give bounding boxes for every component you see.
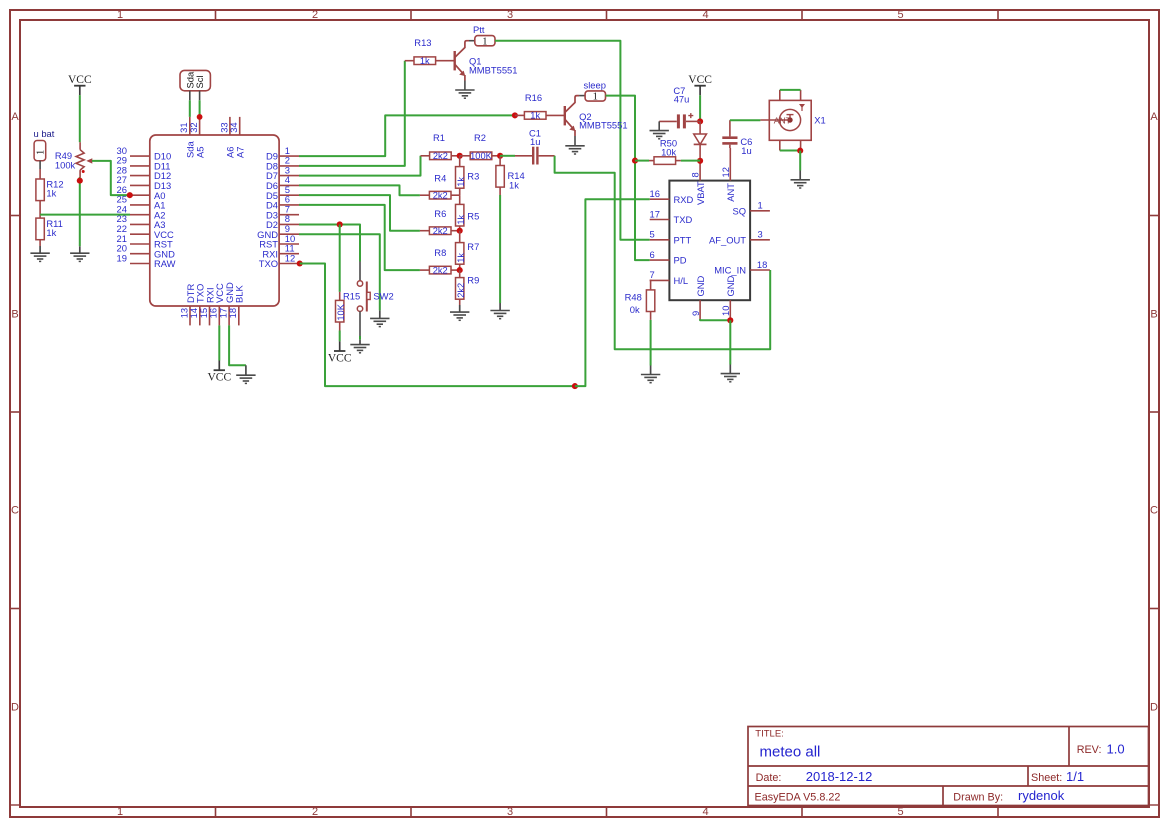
ground under R48 <box>641 366 660 383</box>
junction at R16 input <box>512 112 518 118</box>
ground under RF GND pins <box>721 365 740 382</box>
wire R2 to C1 <box>500 155 515 157</box>
resistor R8 <box>420 269 429 271</box>
RF module top pin numbers <box>690 167 731 177</box>
svg-text:EasyEDA V5.8.22: EasyEDA V5.8.22 <box>755 791 841 803</box>
svg-text:MMBT5551: MMBT5551 <box>469 64 517 75</box>
wire sleep to PD <box>606 96 650 261</box>
svg-text:R1: R1 <box>433 132 445 143</box>
ground under pin17 <box>236 365 255 383</box>
wire VCC to R49 <box>79 95 81 142</box>
wire GND10 down <box>729 320 731 364</box>
RF module right pin numbers <box>757 200 767 270</box>
svg-text:17: 17 <box>650 208 660 219</box>
svg-text:2: 2 <box>312 806 318 818</box>
svg-text:R15: R15 <box>343 290 360 301</box>
wire D9 to R16 net <box>299 115 515 156</box>
switch SW2 <box>357 262 370 337</box>
svg-text:5: 5 <box>897 9 903 21</box>
connector u bat <box>34 141 47 170</box>
svg-text:R3: R3 <box>467 171 479 182</box>
RF module left pins <box>650 199 670 280</box>
wire D6 to R4 <box>299 185 420 195</box>
wire SW2 to ground <box>359 336 361 340</box>
svg-text:1k: 1k <box>456 177 466 187</box>
svg-text:1: 1 <box>593 92 598 103</box>
ground at C7 <box>658 121 660 130</box>
svg-text:R7: R7 <box>467 241 479 252</box>
ground under R14 <box>490 303 509 319</box>
RF module bottom pin names <box>695 275 736 296</box>
resistor R6 <box>420 230 429 232</box>
svg-text:ANT: ANT <box>774 115 791 125</box>
MCU bottom pins <box>190 306 239 325</box>
svg-text:7: 7 <box>650 269 655 280</box>
resistor R48 <box>649 280 652 290</box>
svg-text:8: 8 <box>690 172 701 177</box>
svg-text:R9: R9 <box>467 275 479 286</box>
RF module bottom pin numbers <box>690 306 731 316</box>
ground under Q2 emitter <box>574 136 576 146</box>
ground under antenna <box>791 171 810 189</box>
resistor R2 <box>460 155 471 157</box>
svg-text:32: 32 <box>188 122 199 132</box>
diode D1 <box>694 121 707 160</box>
svg-text:VCC: VCC <box>328 353 352 365</box>
svg-text:100K: 100K <box>470 151 493 161</box>
antenna connector X1 <box>760 90 811 151</box>
svg-text:1: 1 <box>482 36 487 47</box>
svg-text:RXD: RXD <box>674 194 694 205</box>
RF module top pin names <box>695 181 736 205</box>
wire TXO to RXD continued <box>575 199 650 386</box>
svg-text:SQ: SQ <box>732 205 746 216</box>
junction sleep R50 <box>632 158 638 164</box>
junction at pin 32 <box>197 114 203 120</box>
resistor R13 <box>405 60 415 62</box>
wire D4 to R8 <box>299 205 420 270</box>
capacitor C6 <box>722 120 737 148</box>
svg-text:9: 9 <box>690 311 701 316</box>
junction R1 R2 R3 <box>457 153 463 159</box>
svg-text:TXO: TXO <box>259 258 278 269</box>
svg-text:1: 1 <box>117 806 123 818</box>
title block <box>748 727 1149 806</box>
capacitor C7 <box>659 113 700 128</box>
svg-text:Drawn By:: Drawn By: <box>953 791 1003 803</box>
wire VCC to VBAT node <box>699 95 701 121</box>
svg-text:A5: A5 <box>194 147 205 158</box>
connector sleep <box>585 91 605 103</box>
svg-text:1k: 1k <box>420 56 430 66</box>
wire R14 to ground <box>499 195 501 303</box>
svg-text:PTT: PTT <box>674 234 692 245</box>
wire R50 left <box>635 160 649 162</box>
wire pin16 VCC down <box>218 325 220 360</box>
svg-text:MMBT5551: MMBT5551 <box>579 120 627 131</box>
ground under SW2 <box>350 340 369 353</box>
RF module body <box>669 181 750 301</box>
power flag VCC under pin16 <box>218 361 220 371</box>
svg-text:18: 18 <box>227 308 238 318</box>
svg-text:VBAT: VBAT <box>695 181 706 205</box>
svg-text:12: 12 <box>720 167 731 177</box>
resistor R15 <box>339 292 341 300</box>
svg-text:u bat: u bat <box>34 128 55 139</box>
transistor Q1 <box>455 41 469 81</box>
junction VBAT pin <box>697 158 703 164</box>
ground under Q1 emitter <box>464 81 466 91</box>
svg-text:1.0: 1.0 <box>1107 742 1125 757</box>
svg-text:TXD: TXD <box>674 214 693 225</box>
wire R48 to ground <box>650 320 652 366</box>
svg-text:2k2: 2k2 <box>433 226 448 236</box>
svg-text:2: 2 <box>312 9 318 21</box>
svg-text:1u: 1u <box>741 145 751 156</box>
svg-text:C: C <box>1150 505 1158 517</box>
svg-text:4: 4 <box>702 806 708 818</box>
wire R15 branch down <box>339 224 341 291</box>
MCU side pins <box>130 156 299 263</box>
svg-text:VCC: VCC <box>207 372 231 384</box>
MCU left pin names <box>154 151 176 269</box>
MCU right pin numbers <box>285 145 295 263</box>
svg-text:1k: 1k <box>456 214 466 224</box>
frame column numbers <box>117 9 904 818</box>
svg-text:2k2: 2k2 <box>433 151 448 161</box>
junction R8 R7 R9 <box>457 267 463 273</box>
RF module right pin names <box>709 205 746 275</box>
junction R2 R14 C1 <box>497 153 503 159</box>
svg-text:REV:: REV: <box>1077 744 1102 756</box>
svg-text:GND: GND <box>725 275 736 296</box>
connector Ptt <box>475 36 495 48</box>
power flag VCC under R15 <box>339 341 341 351</box>
svg-text:H/L: H/L <box>674 275 689 286</box>
MCU top pin numbers <box>178 122 239 132</box>
MCU bottom pin numbers <box>178 308 238 318</box>
wire TXO to RXD <box>300 263 575 386</box>
Q2 collector lead <box>579 95 585 97</box>
svg-text:Sheet:: Sheet: <box>1031 772 1062 784</box>
wire D2 to SW2 <box>299 224 360 261</box>
svg-text:C: C <box>11 505 19 517</box>
svg-text:R2: R2 <box>474 132 486 143</box>
wire C6 to antenna <box>730 119 761 121</box>
power flag VCC top-left <box>68 74 92 86</box>
svg-text:A: A <box>11 111 19 123</box>
wire pin17 GND down <box>229 325 246 365</box>
capacitor C1 <box>515 147 555 165</box>
svg-text:10K: 10K <box>336 303 346 320</box>
RF module left pin names <box>674 194 694 286</box>
svg-text:B: B <box>11 309 18 321</box>
wire Sda to pin 31 <box>189 100 191 117</box>
junction at A0 pin <box>127 192 133 198</box>
svg-text:1k: 1k <box>456 253 466 263</box>
junction R49 bottom <box>77 178 83 184</box>
svg-text:1k: 1k <box>46 188 56 199</box>
ground under GND9 wire <box>370 310 389 326</box>
wire D5 to R6 <box>299 195 420 231</box>
svg-text:1: 1 <box>117 9 123 21</box>
junction D2 R15 branch <box>337 221 343 227</box>
svg-text:6: 6 <box>650 249 655 260</box>
resistor R7 <box>459 231 461 243</box>
ground under R49 chain <box>70 246 89 261</box>
MCU top pins <box>190 117 240 135</box>
svg-text:2k2: 2k2 <box>433 265 448 275</box>
MCU top pin names <box>185 141 246 158</box>
resistor R11 bottom lead <box>39 239 41 246</box>
resistor R12 bottom lead <box>39 200 41 219</box>
svg-text:R4: R4 <box>434 172 446 183</box>
resistor R12 <box>39 169 41 180</box>
frame row letters <box>11 111 1158 713</box>
wire antenna bottom bridge <box>780 150 800 152</box>
svg-text:16: 16 <box>650 188 660 199</box>
junction VBAT top <box>697 118 703 124</box>
resistor R50 <box>649 160 654 162</box>
junction R6 R5 R7 <box>457 228 463 234</box>
MCU right pin names <box>257 151 278 269</box>
svg-text:B: B <box>1150 309 1157 321</box>
wire R49 bottom to ground <box>79 177 81 246</box>
svg-text:1u: 1u <box>530 136 540 147</box>
svg-text:10k: 10k <box>661 147 676 158</box>
svg-text:R8: R8 <box>434 247 446 258</box>
Q1 collector lead <box>469 40 475 42</box>
svg-text:18: 18 <box>757 259 767 270</box>
junction on TXO wire <box>572 383 578 389</box>
resistor R11 <box>36 218 44 240</box>
RF module top pins <box>700 148 730 181</box>
junction at TXO pin <box>297 260 303 266</box>
svg-text:47u: 47u <box>674 94 690 105</box>
RF module bottom pins <box>700 300 730 320</box>
svg-text:2k2: 2k2 <box>433 191 448 201</box>
svg-text:19: 19 <box>117 252 127 263</box>
svg-text:D: D <box>1150 701 1158 713</box>
resistor R14 <box>499 156 501 166</box>
wire A2 net <box>40 214 130 216</box>
wire Scl to pin 32 <box>199 100 201 117</box>
svg-text:10: 10 <box>720 306 731 316</box>
wire R49 wiper to A0 <box>92 161 130 195</box>
MCU body <box>150 135 279 306</box>
wire D7 to R1 <box>299 156 421 176</box>
resistor R4 <box>420 194 429 196</box>
svg-text:0k: 0k <box>630 304 640 315</box>
junction antenna ground <box>797 148 803 154</box>
junction GND10 <box>727 317 733 323</box>
wire antenna top bridge <box>780 89 801 91</box>
wire R50 right <box>681 160 700 162</box>
svg-text:MIC_IN: MIC_IN <box>714 265 746 276</box>
svg-text:RAW: RAW <box>154 258 176 269</box>
svg-text:Ptt: Ptt <box>473 24 485 35</box>
svg-text:rydenok: rydenok <box>1018 788 1065 803</box>
svg-text:sleep: sleep <box>584 79 606 90</box>
wire GND pins to ground <box>700 319 730 320</box>
RF module left pin numbers <box>650 188 660 280</box>
resistor R16 <box>515 114 525 116</box>
svg-text:PD: PD <box>674 255 687 266</box>
power flag VCC at C7 <box>688 74 712 86</box>
potentiometer R49 <box>76 142 92 177</box>
svg-text:Scl: Scl <box>194 75 205 88</box>
resistor R5 <box>459 195 461 204</box>
svg-text:5: 5 <box>650 229 655 240</box>
svg-text:BLK: BLK <box>234 285 245 303</box>
svg-text:4: 4 <box>702 9 708 21</box>
svg-text:ANT: ANT <box>725 183 736 202</box>
svg-text:2018-12-12: 2018-12-12 <box>806 769 873 784</box>
svg-text:100k: 100k <box>55 159 76 170</box>
svg-text:SW2: SW2 <box>373 290 393 301</box>
wire antenna to ground <box>799 151 801 171</box>
transistor Q2 <box>565 96 579 136</box>
ground under R11 <box>30 246 49 261</box>
svg-text:R5: R5 <box>467 210 479 221</box>
wire R15 to VCC <box>339 331 341 342</box>
svg-text:R16: R16 <box>525 92 542 103</box>
wire D8 to R13 <box>299 61 405 166</box>
connector Sda Scl <box>180 70 210 100</box>
svg-text:3: 3 <box>758 229 763 240</box>
svg-text:1k: 1k <box>530 111 540 121</box>
RF module right pins <box>750 211 770 270</box>
svg-text:34: 34 <box>228 122 239 132</box>
svg-text:VCC: VCC <box>68 74 92 86</box>
svg-text:A: A <box>1150 111 1158 123</box>
svg-text:R48: R48 <box>625 291 642 302</box>
svg-text:VCC: VCC <box>688 74 712 86</box>
svg-text:3: 3 <box>507 806 513 818</box>
svg-text:R6: R6 <box>434 208 446 219</box>
resistor R3 <box>459 156 461 167</box>
MCU bottom pin names <box>185 282 245 303</box>
svg-text:2k2: 2k2 <box>456 283 466 298</box>
svg-text:A7: A7 <box>235 147 246 158</box>
svg-text:1: 1 <box>758 200 763 211</box>
svg-text:GND: GND <box>695 275 706 296</box>
svg-text:D: D <box>11 701 19 713</box>
svg-text:1: 1 <box>36 150 47 155</box>
svg-text:3: 3 <box>507 9 513 21</box>
resistor R1 <box>421 155 430 157</box>
svg-text:1k: 1k <box>46 227 56 238</box>
svg-text:meteo all: meteo all <box>760 744 821 761</box>
svg-text:X1: X1 <box>814 115 825 126</box>
MCU left pin numbers <box>117 145 127 263</box>
wire Ptt to PTT pin <box>495 41 650 240</box>
svg-text:1k: 1k <box>509 179 519 190</box>
resistor R9 <box>459 270 461 278</box>
svg-text:12: 12 <box>285 252 295 263</box>
svg-text:AF_OUT: AF_OUT <box>709 234 746 245</box>
svg-text:R13: R13 <box>414 37 431 48</box>
wire C1 to MIC_IN <box>555 156 771 349</box>
svg-text:1/1: 1/1 <box>1066 769 1084 784</box>
svg-text:5: 5 <box>897 806 903 818</box>
svg-text:Date:: Date: <box>756 772 782 784</box>
svg-text:TITLE:: TITLE: <box>755 729 784 740</box>
wire GND9 to ground <box>299 234 380 310</box>
ground under R9 <box>450 305 469 320</box>
